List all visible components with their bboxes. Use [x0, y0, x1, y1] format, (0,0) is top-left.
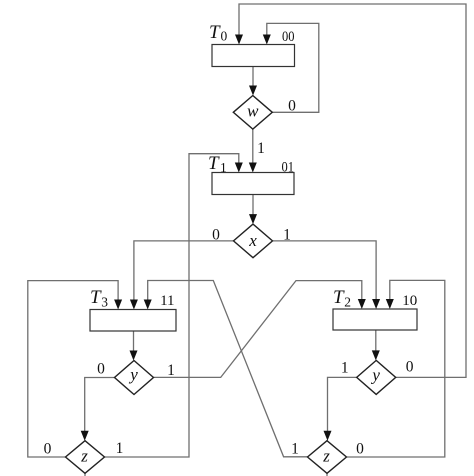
- svg-text:0: 0: [406, 359, 414, 376]
- svg-text:1: 1: [116, 440, 124, 457]
- svg-text:T: T: [209, 22, 221, 43]
- svg-text:00: 00: [282, 29, 295, 45]
- svg-text:0: 0: [221, 28, 228, 43]
- svg-text:1: 1: [341, 360, 349, 377]
- svg-text:3: 3: [101, 294, 108, 309]
- svg-text:1: 1: [257, 140, 265, 157]
- svg-text:1: 1: [291, 441, 299, 458]
- svg-text:y: y: [128, 365, 138, 384]
- svg-text:10: 10: [402, 293, 417, 309]
- svg-text:T: T: [90, 287, 102, 308]
- svg-text:z: z: [80, 446, 88, 465]
- svg-text:0: 0: [288, 98, 296, 115]
- svg-text:2: 2: [344, 294, 351, 309]
- svg-text:11: 11: [160, 293, 174, 309]
- svg-text:1: 1: [167, 362, 175, 379]
- svg-text:0: 0: [356, 441, 364, 458]
- svg-text:w: w: [247, 102, 259, 121]
- svg-text:z: z: [322, 446, 330, 465]
- svg-text:0: 0: [97, 360, 105, 377]
- svg-text:0: 0: [44, 440, 52, 457]
- svg-text:01: 01: [282, 160, 295, 176]
- svg-text:x: x: [248, 231, 257, 250]
- svg-text:0: 0: [212, 226, 220, 243]
- svg-text:1: 1: [283, 226, 291, 243]
- svg-text:y: y: [370, 366, 380, 385]
- svg-text:T: T: [333, 287, 345, 308]
- svg-text:1: 1: [220, 160, 227, 175]
- svg-text:T: T: [208, 153, 220, 174]
